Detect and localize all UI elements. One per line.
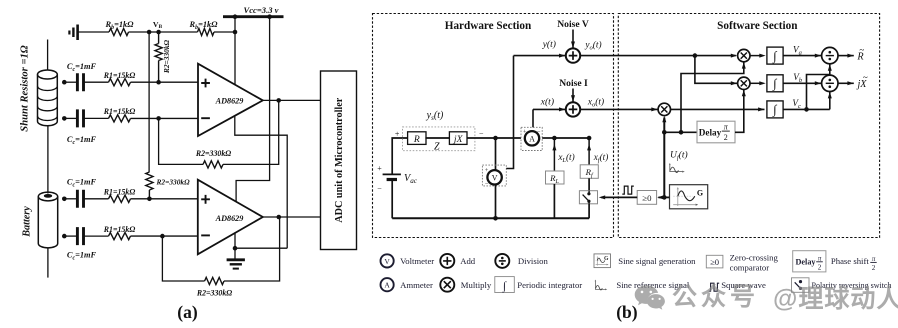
svg-text:Division: Division (518, 256, 549, 266)
wire R to jX (425, 137, 449, 139)
legend sine reference signal icon (595, 280, 608, 291)
wire Vc to divider1 bottom (807, 64, 832, 109)
legend periodic integrator box (495, 277, 515, 293)
Delay pi/2 text (699, 123, 730, 143)
svg-text:(b): (b) (616, 302, 638, 322)
Hardware Section dashed border (373, 14, 614, 238)
svg-text:R1=15kΩ: R1=15kΩ (103, 71, 136, 80)
wire Va to divider1 (783, 54, 821, 58)
wire jX to voltmeter node (467, 137, 521, 139)
arrowhead into integrator2 (759, 81, 765, 85)
reactance jX box of Z (449, 132, 467, 145)
sine signal generator G box (670, 185, 708, 209)
node Uf tap on G output (662, 195, 667, 200)
wire top of shunt resistor (47, 40, 49, 71)
battery cylinder (38, 192, 57, 248)
node row3 input tap (62, 197, 67, 202)
wire voltmeter top (495, 138, 497, 170)
wire Noise V arrow (571, 30, 575, 48)
svg-text:Delay: Delay (796, 258, 817, 267)
resistor R1 15k row3 (109, 195, 198, 202)
svg-text:Delay: Delay (699, 127, 722, 137)
wire bottom rail (392, 217, 589, 219)
svg-text:−: − (377, 184, 382, 193)
svg-text:(a): (a) (177, 302, 198, 322)
node row2 input tap (62, 116, 67, 121)
op-amp U2 plus input sign (201, 195, 210, 204)
legend multiply circle (440, 278, 454, 292)
wire RL to bottom rail (553, 184, 555, 218)
ADC unit of Microcontroller box (321, 71, 357, 250)
wire Uf reference up from generator line (663, 118, 665, 198)
svg-text:~: ~ (863, 73, 868, 83)
svg-text:Ammeter: Ammeter (400, 280, 433, 290)
resistor R2 330k bias op-amp U2 (146, 172, 153, 199)
wire xo(t) to multiplier3 (580, 107, 658, 111)
node yo split (693, 53, 698, 58)
ground symbol under op-amp U2 (227, 248, 245, 268)
op-amp U1 AD8629 triangle (198, 64, 263, 136)
svg-text:2: 2 (872, 264, 876, 272)
wire yo(t) to multiplier1 (580, 55, 736, 57)
wire Vcc rail down to op-amp U1 V+ pin (234, 17, 236, 85)
svg-text:V: V (492, 173, 498, 182)
adder for Noise V (566, 48, 580, 62)
legend division circle (495, 254, 509, 268)
wire x(t) into adder2 (533, 107, 565, 111)
svg-text:xo(t): xo(t) (587, 97, 604, 109)
svg-text:~: ~ (859, 45, 864, 55)
svg-text:Voltmeter: Voltmeter (400, 256, 434, 266)
wire divider2 to X output (838, 81, 854, 85)
svg-text:R2=330kΩ: R2=330kΩ (156, 177, 191, 186)
svg-text:R2=330kΩ: R2=330kΩ (196, 289, 232, 298)
battery source Vac plates (383, 174, 401, 179)
wire Delay output to multiplier2 (735, 90, 746, 132)
svg-text:Noise V: Noise V (557, 19, 589, 30)
arrowhead Uf into multiplier3 (662, 116, 666, 122)
node U2 output junction (277, 215, 282, 220)
wire Noise I arrow (571, 89, 575, 102)
wire mult3 to integrator3 (671, 107, 765, 111)
svg-text:AD8629: AD8629 (215, 96, 244, 105)
wire Rf branch with current arrow (587, 138, 591, 165)
wire ammeter to RL node (542, 137, 554, 139)
svg-text:公众号: 公众号 (672, 283, 759, 311)
Vcc power rail (223, 15, 284, 18)
node Rf tap (587, 136, 592, 141)
legend sine signal generation icon (594, 254, 611, 268)
svg-text:R2=330kΩ: R2=330kΩ (162, 39, 171, 74)
wire Uf direct to multiplier1 (681, 62, 746, 132)
resistor R2 330k bias op-amp U1 (155, 32, 162, 82)
wire y tap from voltmeter (506, 56, 513, 169)
resistor R1 15k row2 (109, 115, 199, 122)
ground symbol at input of Rb bias divider (69, 25, 77, 41)
svg-text:Add: Add (460, 256, 476, 266)
Delay pi/2 box (697, 121, 735, 143)
node RL tap (552, 136, 557, 141)
ammeter A circle (525, 131, 539, 145)
svg-text:ADC unit of Microcontroller: ADC unit of Microcontroller (334, 97, 345, 222)
legend ammeter circle (381, 278, 394, 291)
svg-text:y(t): y(t) (542, 39, 556, 50)
svg-text:R1=15kΩ: R1=15kΩ (103, 107, 136, 116)
svg-text:Periodic integrator: Periodic integrator (517, 280, 582, 290)
divider D1 R (822, 47, 838, 63)
svg-text:Phase shift: Phase shift (831, 256, 869, 266)
svg-text:≥0: ≥0 (642, 193, 652, 203)
resistor Rb1 1k (109, 28, 129, 35)
svg-text:A: A (529, 134, 535, 143)
resistor Rb2 1k (198, 28, 215, 35)
wire Vcc rail down to op-amp U2 V+ pin (236, 17, 270, 202)
op-amp U2 minus input sign (201, 234, 210, 236)
svg-text:∫: ∫ (772, 103, 777, 118)
legend Zero-crossing comparator text (730, 253, 779, 273)
wire feedback U1 to output (223, 100, 279, 164)
legend square wave icon (709, 283, 719, 291)
wire Vc to divider2 bottom (828, 92, 832, 109)
resistor R2 330k feedback U2 (205, 277, 224, 284)
wire source top left vertical (392, 138, 407, 174)
wire U1 V- pin to ground bus (235, 116, 287, 248)
node row1 junction (156, 80, 161, 85)
wire voltmeter bottom to rail (495, 184, 497, 218)
svg-text:Shunt Resistor =1Ω: Shunt Resistor =1Ω (20, 45, 31, 131)
legend Delay box (793, 251, 826, 272)
capacitor Cc row2 1mF (64, 109, 108, 127)
svg-text:jX: jX (452, 134, 464, 145)
node VB junction to op-amp2 bias wire (147, 30, 152, 35)
svg-text:π: π (818, 254, 822, 262)
wire ground to resistor Rb1 (79, 31, 110, 33)
wire Rb2 to Vcc drop (214, 31, 235, 33)
legend zero-crossing box (706, 255, 723, 268)
watermark wechat icon (635, 285, 665, 310)
wire switch to bottom rail (588, 204, 590, 219)
wire Uf to Delay box (664, 131, 697, 133)
voltmeter V circle (487, 170, 501, 184)
svg-text:Zero-crossing: Zero-crossing (730, 253, 779, 263)
wire divider1 to R output (838, 54, 854, 58)
svg-text:Software Section: Software Section (717, 20, 798, 32)
node Uf split to delay branch (662, 130, 667, 135)
wire RL node to Rf node (554, 137, 589, 139)
op-amp U1 minus input sign (201, 117, 210, 119)
resistor R2 330k feedback U1 (203, 161, 223, 168)
svg-text:x(t): x(t) (540, 96, 554, 107)
svg-text:R: R (413, 134, 420, 145)
node voltmeter tap (493, 136, 498, 141)
ammeter dashed box (521, 127, 542, 150)
node VB junction to R2 bias resistor (156, 30, 161, 35)
square wave icon in diagram (622, 186, 634, 194)
op-amp U1 plus input sign (201, 79, 210, 88)
svg-text:AD8629: AD8629 (215, 214, 244, 223)
svg-text:Vcc=3.3 v: Vcc=3.3 v (244, 5, 279, 15)
svg-text:2: 2 (818, 263, 822, 271)
wire Vc output (783, 108, 830, 110)
legend Phase shift text (831, 255, 877, 272)
wire x tap from ammeter (532, 109, 534, 127)
wire RL branch with current arrow (552, 138, 556, 171)
svg-text:G: G (697, 188, 703, 197)
wire feedback U1 from minus node down (159, 118, 203, 164)
node Rb2-Vcc junction (233, 30, 238, 35)
multiplier M2 for Vb (738, 77, 750, 89)
svg-text:Noise I: Noise I (559, 78, 588, 89)
voltmeter dashed box (482, 165, 506, 186)
node row1 input tap (62, 80, 67, 85)
wire mult1 to integrator1 (750, 55, 760, 57)
wire U1 output to ADC (263, 99, 321, 101)
capacitor Cc row1 1mF (64, 73, 108, 91)
svg-text:Z: Z (434, 142, 440, 153)
multiplier M3 for Vc (658, 103, 670, 115)
svg-text:V: V (384, 257, 390, 266)
node Vcc rail left junction (233, 14, 238, 19)
svg-text:A: A (384, 281, 390, 290)
node row4 input tap (62, 234, 67, 239)
capacitor Cc row4 1mF (64, 227, 108, 245)
wire feedback U2 from minus node down (162, 236, 204, 281)
svg-text:xL(t): xL(t) (557, 152, 574, 164)
switch contacts and lever (583, 191, 591, 204)
divider D2 X (822, 75, 838, 91)
svg-text:∫: ∫ (772, 77, 777, 92)
wire VB down to op-amp U2 bias resistor (148, 32, 150, 172)
resistor R box of Z (408, 132, 426, 145)
svg-text:R2=330kΩ: R2=330kΩ (195, 149, 231, 158)
node row3 junction (147, 197, 152, 202)
resistor R1 15k row4 (109, 233, 198, 240)
node Vc split (804, 107, 809, 112)
arrowhead into multiplier1 (731, 54, 737, 58)
svg-text:+: + (377, 164, 382, 173)
node row2 junction (156, 116, 161, 121)
resistor RL box (546, 171, 565, 184)
legend add circle (440, 254, 454, 268)
svg-text:R1=15kΩ: R1=15kΩ (103, 225, 136, 234)
resistor Rf box (580, 165, 598, 179)
wire G to zero-crossing comparator with arrow (657, 195, 669, 199)
svg-text:≥0: ≥0 (710, 257, 719, 267)
svg-text:Battery: Battery (22, 206, 33, 238)
wire Rf to switch (588, 178, 590, 190)
wire VB between junctions (149, 31, 159, 33)
node U1 output junction (276, 98, 281, 103)
zero-crossing comparator box (637, 191, 656, 205)
wire shunt to battery (47, 126, 49, 194)
svg-text:xf(t): xf(t) (593, 152, 609, 164)
node voltmeter bottom rail junction (493, 216, 498, 221)
svg-text:yo(t): yo(t) (584, 40, 601, 52)
integrator box 3 (767, 101, 783, 118)
wire Vb to divider2 (783, 81, 821, 85)
arrowhead into integrator1 (759, 54, 765, 58)
svg-text:Uf(t): Uf(t) (670, 149, 688, 161)
impedance Z dotted box (403, 127, 475, 151)
svg-text:G: G (604, 256, 609, 262)
svg-text:Hardware Section: Hardware Section (445, 20, 532, 32)
wire VB to resistor Rb2 (159, 31, 198, 33)
svg-text:2: 2 (724, 133, 728, 142)
node Uf split to direct branch (679, 130, 684, 135)
label jX tilde output (855, 73, 867, 91)
wire comparator to switch with arrow (599, 195, 637, 199)
wire U2 output to ADC (263, 216, 321, 218)
node ground junction under U2 (233, 246, 238, 251)
shunt resistor cylinder (38, 70, 58, 126)
svg-text:R1=15kΩ: R1=15kΩ (103, 188, 136, 197)
capacitor Cc row3 1mF (64, 190, 108, 208)
svg-text:@理球动人: @理球动人 (773, 285, 898, 313)
svg-text:ys(t): ys(t) (426, 110, 444, 122)
integrator box 1 (767, 47, 783, 64)
wire y(t) into adder1 (514, 54, 566, 58)
label R tilde output (856, 45, 864, 63)
wire below battery (47, 248, 49, 277)
sine reference signal icon in diagram (669, 163, 685, 173)
integrator box 2 (767, 75, 783, 92)
node Vcc rail right junction (267, 14, 272, 19)
svg-text:Sine signal generation: Sine signal generation (618, 256, 696, 266)
svg-text:∫: ∫ (772, 49, 777, 64)
wire U2 V- pin to ground node (235, 232, 287, 248)
svg-text:Multiply: Multiply (461, 280, 492, 290)
svg-text:π: π (872, 255, 876, 263)
svg-text:+: + (395, 130, 400, 139)
legend polarity switch icon (792, 278, 810, 293)
resistor R1 15k row1 (109, 79, 199, 86)
node row4 junction (160, 234, 165, 239)
op-amp U2 AD8629 triangle (198, 180, 263, 255)
wire yo to multiplier2 (695, 56, 737, 86)
svg-text:comparator: comparator (730, 263, 770, 273)
adder for Noise I (566, 102, 580, 116)
legend voltmeter circle (381, 254, 394, 267)
wire source bottom (391, 180, 393, 219)
Software Section dashed border (618, 14, 879, 238)
wire Rb1 to node VB (129, 31, 150, 33)
wire mult2 to integrator2 (750, 82, 760, 84)
polarity reversing switch box (579, 191, 597, 204)
multiplier M1 for Va (738, 49, 750, 61)
wire feedback U2 to output (224, 217, 280, 281)
